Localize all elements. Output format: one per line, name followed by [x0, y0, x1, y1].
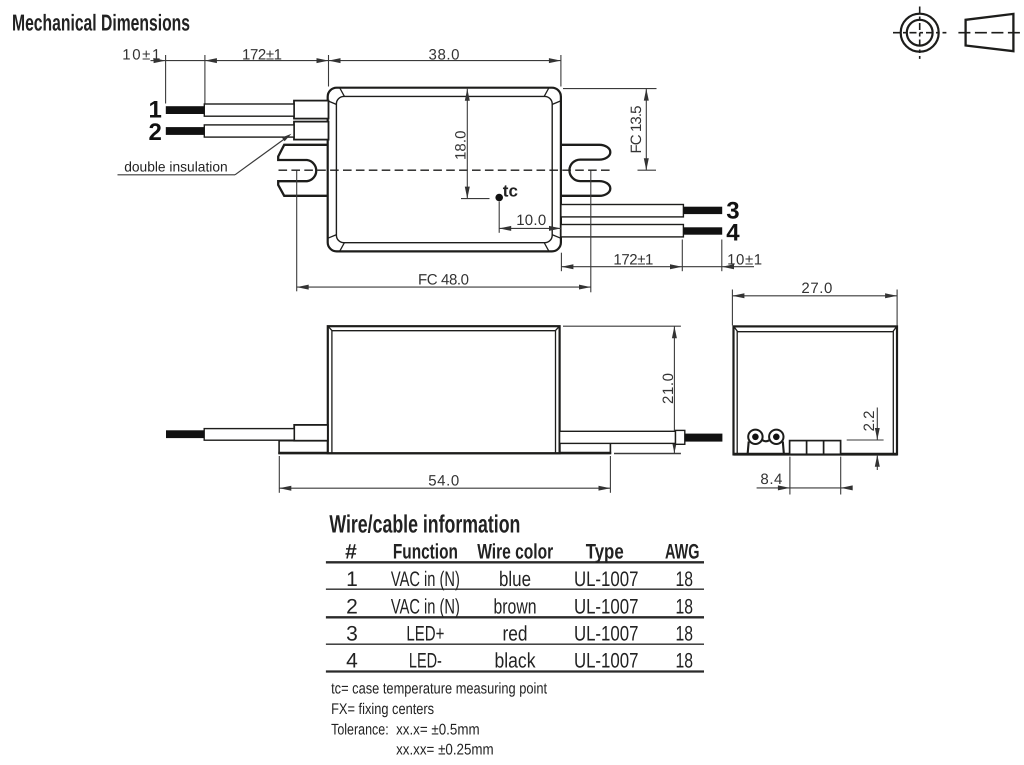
dimension line top [151, 60, 166, 62]
svg-text:black: black [495, 649, 536, 672]
svg-text:Mechanical Dimensions: Mechanical Dimensions [12, 10, 190, 36]
svg-text:#: # [345, 541, 357, 564]
svg-text:3: 3 [346, 622, 358, 645]
svg-text:LED+: LED+ [406, 622, 444, 645]
symbol frustum [966, 14, 1014, 51]
svg-text:tc: tc [503, 181, 518, 200]
svg-text:38.0: 38.0 [429, 47, 460, 64]
base flange bottom edge [278, 452, 611, 455]
dimension 27.0 [731, 290, 733, 326]
wire 1 sleeve [294, 101, 329, 119]
svg-text:Tolerance:: Tolerance: [331, 722, 389, 739]
dimension 2.2 [847, 439, 884, 441]
right wire collar [676, 430, 685, 444]
svg-text:FX= fixing centers: FX= fixing centers [331, 701, 434, 718]
left sleeve [294, 425, 328, 441]
svg-text:tc= case temperature measuring: tc= case temperature measuring point [331, 681, 548, 698]
svg-text:VAC in (N): VAC in (N) [391, 596, 460, 619]
base flange [279, 441, 610, 454]
svg-text:10±1: 10±1 [122, 47, 160, 64]
centerline stub right [638, 169, 657, 171]
svg-text:27.0: 27.0 [801, 280, 832, 297]
svg-text:Wire color: Wire color [477, 541, 553, 564]
table rules [326, 561, 704, 563]
svg-text:10±1: 10±1 [727, 251, 762, 268]
extension line 10±1 right [204, 55, 206, 104]
centerline dashed [279, 169, 614, 171]
body outer [328, 88, 561, 252]
end case inner lines [734, 327, 897, 454]
dimension 21.0 ext top [563, 325, 681, 327]
extension line 10±1 left [165, 55, 167, 104]
dimension 54.0 [278, 456, 280, 493]
svg-text:18.0: 18.0 [453, 131, 470, 161]
dimension 18.0 [466, 89, 468, 199]
svg-text:UL-1007: UL-1007 [574, 649, 639, 672]
svg-text:2: 2 [149, 119, 162, 146]
right stripped tip [685, 434, 723, 442]
wire 3 [561, 205, 684, 217]
left wire [204, 429, 294, 441]
bushing circle 1 [748, 430, 762, 444]
svg-text:AWG: AWG [665, 541, 700, 564]
svg-text:FC 48.0: FC 48.0 [418, 271, 469, 288]
extension line body left [328, 55, 330, 87]
corner chamfer ticks [328, 88, 561, 251]
svg-text:18: 18 [676, 622, 694, 645]
right wire [560, 431, 676, 443]
bushing wrap [748, 442, 749, 455]
svg-text:8.4: 8.4 [760, 471, 782, 488]
wire 4 [561, 225, 684, 237]
symbol circle outer [901, 14, 939, 52]
table header [345, 541, 699, 564]
svg-text:UL-1007: UL-1007 [574, 568, 639, 591]
svg-text:18: 18 [676, 596, 694, 619]
dimension 21.0 ext bottom [614, 453, 681, 455]
dimension 172±1 right / 10±1 right [560, 253, 562, 272]
symbol frustum centerline [958, 32, 1021, 34]
wire 2 sleeve [294, 122, 329, 140]
svg-text:xx.x= ±0.5mm: xx.x= ±0.5mm [396, 722, 480, 739]
end case body [734, 326, 898, 454]
notes [331, 681, 548, 759]
case inner lines [328, 327, 559, 453]
case body [328, 326, 560, 453]
svg-text:UL-1007: UL-1007 [574, 622, 639, 645]
bushing circle 2 [769, 430, 783, 444]
svg-text:brown: brown [494, 596, 537, 619]
svg-text:FC 13.5: FC 13.5 [628, 106, 645, 154]
svg-text:4: 4 [726, 219, 740, 246]
dimension FC 48.0 [296, 171, 298, 292]
svg-text:UL-1007: UL-1007 [574, 596, 639, 619]
terminal blocks [790, 441, 841, 455]
wire 2 [204, 125, 294, 137]
extension line body right [560, 55, 562, 87]
svg-text:VAC in (N): VAC in (N) [391, 568, 460, 591]
svg-text:18: 18 [676, 649, 694, 672]
svg-text:xx.xx= ±0.25mm: xx.xx= ±0.25mm [396, 742, 494, 759]
svg-text:blue: blue [499, 568, 531, 591]
tc point [495, 194, 503, 202]
leader double insulation [118, 174, 236, 176]
symbol circle inner [907, 20, 933, 46]
body inner [336, 96, 552, 242]
svg-text:10.0: 10.0 [516, 212, 546, 229]
svg-text:54.0: 54.0 [428, 473, 459, 490]
svg-text:Wire/cable information: Wire/cable information [329, 510, 520, 538]
svg-text:21.0: 21.0 [660, 373, 677, 404]
wire 2 stripped tip [166, 127, 205, 135]
svg-text:172±1: 172±1 [613, 251, 653, 268]
svg-text:4: 4 [346, 649, 358, 672]
svg-text:2.2: 2.2 [861, 411, 878, 432]
dimension 8.4 [789, 457, 791, 495]
dimension 10.0 [499, 227, 561, 229]
wire 3 stripped tip [683, 207, 722, 214]
symbol crosshair vertical [919, 7, 921, 59]
svg-text:red: red [503, 622, 528, 645]
wire 4 stripped tip [683, 227, 722, 234]
svg-text:18: 18 [676, 568, 694, 591]
svg-text:2: 2 [346, 596, 358, 619]
right mounting clip [559, 145, 610, 196]
left mounting clip [278, 145, 330, 196]
svg-text:LED-: LED- [409, 649, 442, 672]
dimension 21.0 [673, 326, 675, 453]
svg-text:double insulation: double insulation [124, 158, 228, 174]
svg-text:172±1: 172±1 [242, 46, 282, 63]
left stripped tip [166, 430, 204, 438]
tc stem [498, 202, 500, 233]
svg-text:1: 1 [346, 568, 358, 591]
table rows [346, 568, 693, 673]
wire 1 [204, 104, 294, 116]
symbol crosshair horizontal [893, 32, 946, 34]
svg-text:Type: Type [586, 541, 624, 564]
svg-text:Function: Function [393, 541, 458, 564]
wire 1 stripped tip [166, 106, 205, 114]
dimension FC 13.5 [563, 88, 657, 90]
